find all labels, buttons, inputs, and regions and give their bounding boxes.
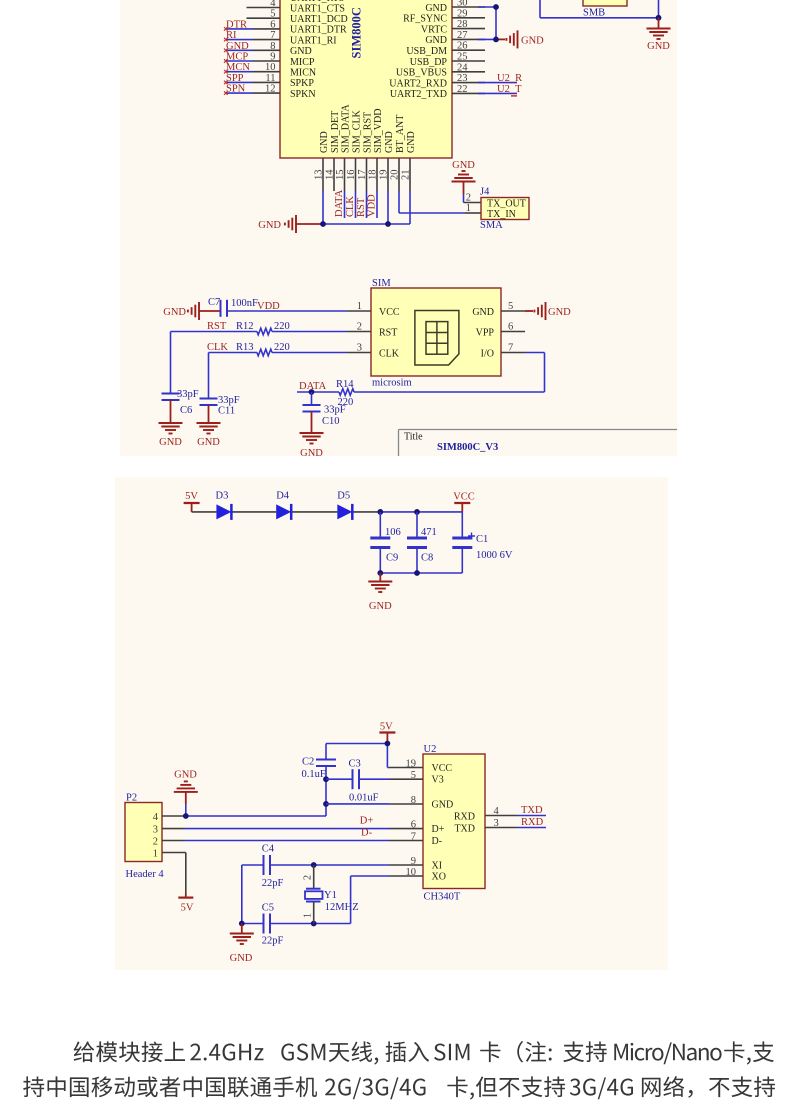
- ground left bus: [258, 215, 296, 233]
- svg-text:BT_ANT: BT_ANT: [395, 115, 406, 153]
- SIM pin 3 CLK: [347, 343, 400, 360]
- svg-text:220: 220: [274, 342, 290, 353]
- svg-text:19: 19: [406, 758, 417, 769]
- svg-text:8: 8: [270, 41, 275, 52]
- svg-text:22: 22: [457, 84, 468, 95]
- net stub DATA pin15: [334, 189, 345, 218]
- svg-text:GND: GND: [452, 160, 475, 171]
- svg-text:6: 6: [270, 19, 275, 30]
- pin 29 RF_SYNC: [403, 8, 485, 24]
- svg-text:VCC: VCC: [453, 492, 475, 503]
- svg-text:D-: D-: [361, 827, 373, 838]
- svg-text:D+: D+: [432, 824, 445, 835]
- U2 pin 6 D+: [389, 819, 445, 835]
- svg-text:6: 6: [411, 819, 416, 830]
- svg-text:5V: 5V: [185, 491, 198, 502]
- ground P2 stem: [185, 792, 187, 816]
- svg-text:SPKP: SPKP: [290, 78, 314, 89]
- svg-text:VPP: VPP: [476, 327, 495, 338]
- svg-text:GND: GND: [230, 953, 253, 964]
- svg-text:30: 30: [457, 0, 468, 9]
- svg-text:8: 8: [411, 795, 416, 806]
- SIM pin 2 RST: [347, 322, 397, 339]
- pin 14 SIM_DET: [325, 111, 341, 191]
- resistor R13: [236, 342, 290, 356]
- svg-text:microsim: microsim: [372, 378, 412, 389]
- svg-text:GND: GND: [425, 3, 447, 14]
- svg-text:22pF: 22pF: [262, 936, 284, 947]
- wire RST row: [171, 331, 348, 333]
- svg-text:28: 28: [457, 19, 468, 30]
- svg-text:33pF: 33pF: [218, 395, 240, 406]
- pin 25 USB_DP: [410, 52, 485, 68]
- svg-text:3: 3: [357, 343, 362, 354]
- net label DTR + wire: [224, 19, 253, 30]
- junction Y1 top: [311, 862, 317, 868]
- net label MCP + wire: [224, 52, 253, 63]
- svg-text:12MHZ: 12MHZ: [325, 902, 359, 913]
- ground SMB: [647, 18, 671, 52]
- junction GND row: [323, 801, 329, 807]
- wire pin20 BT_ANT to J4: [399, 191, 465, 213]
- svg-text:5: 5: [270, 9, 275, 20]
- wire CLK row: [209, 352, 348, 354]
- wire C5 row: [242, 923, 351, 925]
- svg-text:P2: P2: [126, 793, 137, 804]
- svg-text:471: 471: [421, 527, 437, 538]
- svg-text:C6: C6: [180, 405, 192, 416]
- wire C3 to V3 pin: [359, 778, 389, 780]
- svg-text:GND: GND: [174, 770, 197, 781]
- J4 pin numbers: [466, 193, 471, 215]
- wire pin19 to gnd bus: [387, 191, 389, 224]
- diode D5: [337, 491, 352, 520]
- svg-text:33pF: 33pF: [324, 405, 346, 416]
- wire bottom bus: [380, 572, 462, 574]
- svg-text:GND: GND: [384, 131, 395, 153]
- U2 pin 4 RXD: [454, 806, 517, 823]
- wire P2 pin3 D+ row: [184, 828, 389, 830]
- pin 6 UART1_DTR: [253, 19, 347, 35]
- svg-text:GND: GND: [647, 41, 670, 52]
- svg-text:4: 4: [494, 806, 500, 817]
- pin 11 SPKP: [253, 73, 314, 89]
- SIM pin 5 GND: [472, 301, 525, 318]
- net label SPP + wire: [224, 73, 253, 84]
- junction pin27: [493, 37, 499, 43]
- junction C9 top: [377, 509, 383, 515]
- svg-text:C11: C11: [218, 406, 235, 417]
- junction 5V: [385, 741, 391, 747]
- svg-text:UART1_DTR: UART1_DTR: [290, 25, 347, 36]
- junction pin13 bus: [320, 221, 326, 227]
- net label RXD + wire: [517, 817, 546, 828]
- svg-text:SIM_DATA: SIM_DATA: [340, 104, 351, 153]
- svg-text:GND: GND: [258, 220, 281, 231]
- junction pin19 bus: [385, 221, 391, 227]
- svg-text:15: 15: [335, 170, 346, 181]
- svg-text:23: 23: [457, 73, 468, 84]
- svg-text:TX_OUT: TX_OUT: [487, 199, 526, 210]
- wire C4 left leg: [242, 865, 264, 924]
- svg-text:TXD: TXD: [454, 824, 475, 835]
- sim card icon contacts: [426, 322, 448, 355]
- junction C9 bottom: [377, 570, 383, 576]
- wire GND row: [326, 803, 389, 805]
- wire top bus: [380, 511, 462, 513]
- gnd bus red stub: [296, 223, 322, 225]
- svg-text:0.01uF: 0.01uF: [349, 793, 379, 804]
- svg-text:D4: D4: [276, 491, 290, 502]
- svg-text:VRTC: VRTC: [421, 24, 447, 35]
- svg-text:U2_R: U2_R: [497, 73, 522, 84]
- paragraph line 1: [74, 1041, 774, 1065]
- svg-text:C5: C5: [262, 903, 274, 914]
- wire C2 chain down: [325, 779, 327, 816]
- ground at SIM pin5: [525, 302, 571, 320]
- svg-text:100nF: 100nF: [231, 298, 258, 309]
- svg-text:GND: GND: [369, 601, 392, 612]
- svg-text:GND: GND: [432, 799, 454, 810]
- svg-text:UART1_RI: UART1_RI: [290, 35, 337, 46]
- U2 pin 3 TXD: [454, 818, 517, 835]
- diode D4: [276, 491, 291, 520]
- net stub RST pin17: [356, 191, 367, 218]
- capacitor C6 branch: [162, 332, 199, 424]
- wire J4 pin1 stub: [465, 212, 481, 214]
- svg-text:GND: GND: [300, 448, 323, 459]
- svg-text:19: 19: [379, 170, 390, 181]
- net label GND + wire: [224, 41, 253, 52]
- svg-text:SPKN: SPKN: [290, 89, 316, 100]
- pin 28 VRTC: [421, 19, 485, 35]
- svg-text:106: 106: [385, 527, 401, 538]
- svg-text:26: 26: [457, 41, 468, 52]
- connector J4 box: [481, 198, 529, 220]
- svg-text:SMA: SMA: [480, 220, 503, 231]
- svg-text:10: 10: [406, 867, 417, 878]
- svg-text:RXD: RXD: [454, 812, 475, 823]
- ground at C7: [163, 302, 199, 320]
- svg-text:GND: GND: [406, 131, 417, 153]
- capacitor C2: [302, 744, 337, 781]
- svg-text:5: 5: [508, 301, 513, 312]
- svg-text:CLK: CLK: [207, 342, 228, 353]
- svg-text:J4: J4: [480, 187, 490, 198]
- power port 5V: [184, 491, 200, 512]
- pin 5 UART1_DCD: [247, 9, 348, 25]
- U2 pin 8 GND: [389, 795, 453, 811]
- svg-text:GND: GND: [521, 36, 544, 47]
- svg-text:RXD: RXD: [521, 817, 544, 828]
- svg-text:C10: C10: [322, 416, 340, 427]
- svg-text:6: 6: [508, 322, 513, 333]
- ground above P2: [174, 770, 198, 792]
- ground C6: [159, 423, 183, 448]
- pin 12 SPKN: [253, 84, 316, 100]
- crystal Y1: [303, 865, 359, 924]
- svg-text:SPN: SPN: [226, 84, 246, 95]
- svg-text:SIM_VDD: SIM_VDD: [373, 109, 384, 153]
- gnd bus wire: [322, 223, 388, 225]
- svg-text:GND: GND: [472, 307, 494, 318]
- svg-text:5V: 5V: [181, 903, 194, 914]
- net label U2_T + wire pin22: [478, 84, 522, 96]
- pin 10 MICN: [253, 62, 316, 78]
- svg-text:25: 25: [457, 52, 468, 63]
- svg-text:Y1: Y1: [324, 890, 337, 901]
- svg-text:R12: R12: [236, 321, 254, 332]
- schematic image 2 background: [115, 477, 668, 970]
- wire P2 pin1 to 5V: [184, 853, 186, 898]
- wire pin21 to gnd bus: [388, 191, 410, 224]
- power port VCC: [453, 492, 475, 512]
- pin 8 GND: [253, 41, 312, 57]
- svg-text:SPP: SPP: [226, 73, 244, 84]
- ground above J4: [452, 160, 476, 203]
- junction C5 gnd: [239, 921, 245, 927]
- svg-text:2: 2: [153, 837, 158, 848]
- junction C8 top: [414, 509, 420, 515]
- connector P2 box: [125, 803, 162, 862]
- svg-text:1: 1: [303, 913, 314, 918]
- P2 pin 4: [153, 812, 184, 823]
- pin 16 SIM_CLK: [346, 109, 362, 191]
- svg-text:33pF: 33pF: [177, 389, 199, 400]
- pin 17 SIM_RST: [357, 112, 373, 191]
- svg-text:SIM_DET: SIM_DET: [330, 111, 341, 153]
- wire D3-D4: [233, 511, 277, 513]
- svg-text:D+: D+: [360, 815, 374, 826]
- svg-text:RST: RST: [207, 321, 227, 332]
- svg-text:SIM_CLK: SIM_CLK: [351, 109, 362, 153]
- diode D3: [216, 491, 232, 520]
- svg-text:GND: GND: [163, 307, 186, 318]
- svg-text:12: 12: [265, 84, 276, 95]
- svg-text:C3: C3: [349, 759, 361, 770]
- svg-text:7: 7: [270, 30, 275, 41]
- svg-text:11: 11: [265, 73, 275, 84]
- svg-text:7: 7: [411, 831, 416, 842]
- capacitor C9: [370, 512, 400, 573]
- P2 pin 2: [153, 837, 184, 848]
- svg-text:0.1uF: 0.1uF: [302, 769, 326, 780]
- svg-text:24: 24: [457, 62, 468, 73]
- wire P2 pin2 D- row: [184, 840, 389, 842]
- ground power: [368, 573, 392, 612]
- svg-text:SIM800C: SIM800C: [350, 7, 364, 58]
- svg-text:C2: C2: [302, 757, 314, 768]
- wire J4 pin2: [464, 202, 482, 204]
- svg-text:CLK: CLK: [379, 348, 400, 359]
- svg-text:USB_DP: USB_DP: [410, 57, 448, 68]
- svg-text:SMB: SMB: [583, 8, 605, 19]
- svg-text:Title: Title: [404, 432, 423, 443]
- svg-text:VDD: VDD: [257, 301, 280, 312]
- wire 5V to VCC pin: [387, 744, 389, 768]
- wire pin13 to gnd bus: [322, 191, 324, 224]
- capacitor C11 branch: [200, 353, 240, 424]
- svg-text:RST: RST: [356, 197, 367, 217]
- pin 18 SIM_VDD: [368, 109, 384, 191]
- wire pins 30/27 to ground: [478, 7, 505, 39]
- U2 pin 7 D-: [389, 831, 442, 847]
- svg-text:CH340T: CH340T: [424, 892, 461, 903]
- net label VDD + wire to SIM pin1: [227, 301, 347, 312]
- svg-text:5: 5: [411, 770, 416, 781]
- resistor R14: [336, 379, 354, 408]
- ground crystal: [230, 924, 254, 965]
- junction Y1 bottom: [311, 921, 317, 927]
- sim card icon: [415, 311, 459, 366]
- svg-text:SIM800C_V3: SIM800C_V3: [437, 442, 498, 453]
- ground C11: [197, 423, 221, 448]
- pin 4 UART1_CTS: [247, 0, 345, 14]
- wire SMB net to ground: [540, 0, 659, 18]
- svg-text:3: 3: [494, 818, 499, 829]
- svg-text:21: 21: [401, 170, 412, 181]
- wire XI row: [270, 864, 389, 866]
- svg-text:27: 27: [457, 30, 468, 41]
- svg-text:D5: D5: [337, 491, 350, 502]
- connector SMB (clipped): [583, 0, 627, 19]
- svg-text:RF_SYNC: RF_SYNC: [403, 14, 447, 25]
- svg-text:C7: C7: [208, 297, 220, 308]
- junction SMB gnd: [656, 15, 662, 21]
- svg-text:MCN: MCN: [226, 62, 250, 73]
- svg-text:MICN: MICN: [290, 68, 316, 79]
- svg-text:Header 4: Header 4: [126, 869, 165, 880]
- svg-text:9: 9: [270, 52, 275, 63]
- svg-text:V3: V3: [432, 775, 444, 786]
- wire gnd-C7: [199, 310, 220, 312]
- capacitor C4: [262, 844, 284, 890]
- pin 23 UART2_RXD: [389, 73, 485, 89]
- wire 5V to C2: [326, 743, 387, 745]
- svg-text:D3: D3: [216, 491, 229, 502]
- svg-text:29: 29: [457, 8, 468, 19]
- svg-text:14: 14: [325, 169, 336, 180]
- svg-text:UART2_RXD: UART2_RXD: [389, 78, 447, 89]
- U2 pin 5 V3: [389, 770, 444, 786]
- power port 5V (P2): [178, 898, 194, 914]
- U2 pin 9 XI: [389, 856, 442, 872]
- svg-text:R14: R14: [336, 379, 354, 390]
- P2 pin 3: [153, 825, 184, 836]
- capacitor C7: [208, 297, 258, 317]
- svg-text:VCC: VCC: [379, 307, 400, 318]
- svg-text:5V: 5V: [380, 722, 393, 733]
- U2 pin 10 XO: [389, 867, 446, 883]
- junction pin30: [493, 4, 499, 10]
- svg-text:20: 20: [390, 170, 401, 181]
- net label MCN + wire: [224, 62, 253, 73]
- svg-text:1000 6V: 1000 6V: [476, 550, 513, 561]
- junction P2 pin4 gnd: [183, 813, 189, 819]
- title block frame: [399, 430, 678, 459]
- net label U2_R + wire pin23: [478, 73, 522, 84]
- svg-text:VDD: VDD: [367, 194, 378, 217]
- svg-text:1: 1: [466, 203, 471, 214]
- pin 19 GND: [379, 131, 395, 191]
- wire R14 to SIM I/O: [354, 353, 545, 393]
- svg-text:UART2_TXD: UART2_TXD: [390, 89, 447, 100]
- pin 22 UART2_TXD: [390, 84, 485, 100]
- svg-text:10: 10: [265, 62, 276, 73]
- svg-text:USB_DM: USB_DM: [406, 46, 447, 57]
- svg-text:7: 7: [508, 343, 513, 354]
- svg-text:GND: GND: [319, 131, 330, 153]
- svg-text:GND: GND: [290, 46, 312, 57]
- net label DATA + wire: [297, 381, 339, 392]
- pin 15 SIM_DATA: [335, 104, 351, 191]
- svg-text:U2_T: U2_T: [497, 84, 522, 95]
- pin 24 USB_VBUS: [396, 62, 485, 78]
- capacitor C10 branch: [303, 392, 346, 433]
- svg-text:2: 2: [303, 875, 314, 880]
- SIM pin 7 I/O: [481, 343, 525, 360]
- svg-text:TX_IN: TX_IN: [487, 209, 516, 220]
- net stub VDD pin18: [367, 191, 378, 218]
- svg-text:C1: C1: [476, 534, 488, 545]
- svg-text:1: 1: [153, 849, 158, 860]
- svg-text:USB_VBUS: USB_VBUS: [396, 68, 447, 79]
- pin 30 GND: [425, 0, 485, 14]
- svg-text:17: 17: [357, 170, 368, 181]
- svg-text:4: 4: [153, 812, 159, 823]
- junction C8 bottom: [414, 570, 420, 576]
- svg-text:C9: C9: [386, 553, 398, 564]
- svg-text:I/O: I/O: [481, 348, 494, 359]
- svg-text:GND: GND: [548, 307, 571, 318]
- resistor R12: [236, 321, 290, 335]
- svg-text:GND: GND: [226, 41, 249, 52]
- svg-text:SIM_RST: SIM_RST: [362, 112, 373, 153]
- net label RI + wire: [224, 30, 253, 41]
- capacitor C3: [349, 759, 379, 804]
- svg-text:XI: XI: [432, 860, 443, 871]
- svg-text:RST: RST: [379, 327, 397, 338]
- SIM pin 6 VPP: [476, 322, 525, 339]
- SIM pin 1 VCC: [347, 301, 400, 318]
- svg-text:VCC: VCC: [432, 763, 453, 774]
- svg-text:TXD: TXD: [521, 805, 543, 816]
- svg-text:C8: C8: [421, 553, 433, 564]
- pin 9 MICP: [253, 52, 315, 68]
- svg-text:2: 2: [357, 322, 362, 333]
- svg-text:U2: U2: [424, 744, 437, 755]
- wire 5V to D3: [192, 511, 217, 513]
- V3 row wire left: [326, 778, 353, 780]
- svg-text:GND: GND: [425, 35, 447, 46]
- schematic image 1 background: [120, 0, 677, 456]
- wire D5 to caps: [353, 511, 380, 513]
- ground C10: [300, 433, 324, 459]
- wire P2 pin4 row: [184, 815, 326, 817]
- svg-text:18: 18: [368, 170, 379, 181]
- svg-text:RI: RI: [226, 30, 237, 41]
- svg-text:2: 2: [466, 193, 471, 204]
- svg-text:22pF: 22pF: [262, 878, 284, 889]
- pin 20 BT_ANT: [390, 115, 406, 191]
- svg-text:9: 9: [411, 856, 416, 867]
- SIM socket box: [371, 288, 501, 376]
- J4 pin names: [487, 199, 526, 221]
- svg-text:DATA: DATA: [334, 189, 345, 217]
- svg-text:D-: D-: [432, 836, 443, 847]
- pin 7 UART1_RI: [253, 30, 337, 46]
- svg-text:4: 4: [270, 0, 276, 9]
